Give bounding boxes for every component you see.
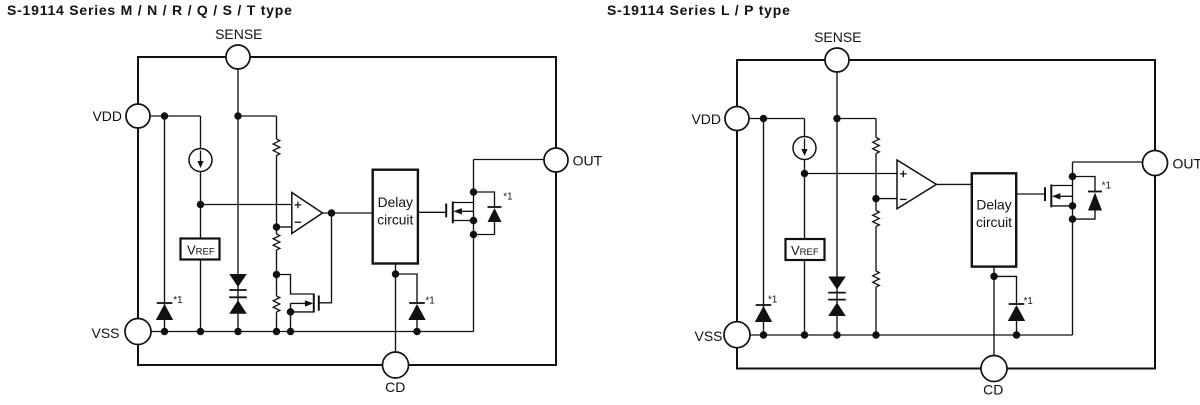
svg-text:OUT: OUT xyxy=(1173,156,1200,172)
junction current source output xyxy=(197,201,205,209)
wire corner down to current source top xyxy=(200,116,202,149)
wire output transistor bulk arrow lead (right) xyxy=(1061,195,1073,197)
wire comparator output down to small transistor gate xyxy=(319,213,332,303)
svg-text:*1: *1 xyxy=(503,192,512,203)
junction Q2 source lead xyxy=(287,308,295,316)
wire comparator plus input line xyxy=(201,204,292,206)
diode D3 (CD clamp) *1 xyxy=(408,303,425,320)
wire divider tap to small transistor drain xyxy=(277,275,314,295)
svg-text:Delay: Delay xyxy=(378,195,413,210)
pin OUT xyxy=(544,148,568,172)
pin VDD xyxy=(126,104,150,128)
wire to OUT pin (right) xyxy=(1073,161,1143,163)
resistor divider R top xyxy=(273,139,280,156)
pin SENSE xyxy=(226,45,250,69)
svg-text:*1: *1 xyxy=(1024,296,1033,307)
junction Q1 source node (right) xyxy=(1069,202,1077,210)
resistor divider R bottom (right) xyxy=(873,271,880,287)
svg-text:*1: *1 xyxy=(425,296,434,307)
wire parallel diode bottom to source node (right) xyxy=(1073,211,1096,220)
wire drain node to parallel diode xyxy=(474,192,495,206)
junction zener on VSS rail (right) xyxy=(833,331,841,339)
zener pair D4 on SENSE line xyxy=(229,274,247,314)
output transistor Q1 xyxy=(446,202,462,224)
wire VDD diode branch (right) xyxy=(763,119,765,336)
pin CD xyxy=(383,352,409,378)
wire output transistor bulk arrow lead xyxy=(462,210,474,212)
resistor divider R middle (right) xyxy=(873,211,880,227)
wire divider chain segments (right) xyxy=(875,119,877,336)
wire comparator plus input line (right) xyxy=(805,173,898,175)
junction delay bottom node (right) xyxy=(990,273,998,281)
reference voltage box VREF (right) xyxy=(786,239,825,260)
junction D3 on VSS rail (right) xyxy=(1013,331,1021,339)
wire output transistor drain lead xyxy=(453,202,474,204)
resistor divider R bottom xyxy=(273,296,280,312)
wire VDD to current-source corner xyxy=(150,115,201,117)
wire parallel diode bottom to source node xyxy=(474,222,495,235)
svg-text:Delay: Delay xyxy=(976,198,1011,213)
left circuit outer frame xyxy=(138,57,556,365)
wire delay bottom to CD pin (right) xyxy=(993,276,995,355)
junction VDD/D1 (right) xyxy=(760,115,768,123)
wire drain node to parallel diode (right) xyxy=(1073,177,1096,191)
svg-text:SENSE: SENSE xyxy=(814,29,861,45)
wire small transistor source to VSS rail xyxy=(290,303,292,331)
comparator U1 xyxy=(292,193,323,234)
current source I1 xyxy=(189,149,212,172)
delay circuit box (right) xyxy=(972,173,1016,266)
junction divider on VSS rail xyxy=(273,328,281,336)
wire comparator minus input line (right) xyxy=(876,198,897,200)
wire delay bottom to CD diode (right) xyxy=(994,276,1017,335)
wire output node vertical (right) xyxy=(1072,162,1074,335)
wire delay circuit to output transistor gate xyxy=(418,211,445,213)
wire SENSE vertical xyxy=(237,69,239,332)
junction diode D2 bottom node (right) xyxy=(1069,215,1077,223)
wire VDD diode branch xyxy=(164,116,166,332)
junction delay bottom node xyxy=(392,270,400,278)
wire output transistor drain lead (right) xyxy=(1051,185,1072,187)
junction current source output (right) xyxy=(801,170,809,178)
junction VREF on VSS rail xyxy=(197,328,205,336)
junction Q1 drain node (right) xyxy=(1069,173,1077,181)
pin OUT (right) xyxy=(1143,151,1168,176)
svg-text:circuit: circuit xyxy=(976,215,1012,230)
wire comparator output xyxy=(323,212,373,214)
junction Q1 drain node xyxy=(470,188,478,196)
pin VSS xyxy=(125,319,151,345)
svg-text:CD: CD xyxy=(385,379,405,395)
wire output transistor source lead (right) xyxy=(1051,205,1072,207)
diode D3 (CD clamp) *1 (right) xyxy=(1008,304,1025,321)
pin VDD (right) xyxy=(725,107,749,131)
wire comparator minus input line xyxy=(277,226,292,228)
junction Q2 source on VSS rail xyxy=(287,328,295,336)
reference voltage box VREF xyxy=(181,239,220,260)
svg-text:*1: *1 xyxy=(768,295,777,306)
wire delay circuit bottom lead xyxy=(395,264,397,275)
wire comparator output (right) xyxy=(936,183,972,185)
wire divider chain segments xyxy=(276,116,278,332)
wire delay bottom to CD diode xyxy=(396,274,418,332)
small transistor Q2 (latch) xyxy=(305,294,319,313)
pin CD (right) xyxy=(981,356,1007,382)
right circuit outer frame xyxy=(737,60,1155,369)
svg-text:*1: *1 xyxy=(173,295,182,306)
junction divider lower tap xyxy=(273,271,281,279)
diode D1 (VDD clamp) *1 (right) xyxy=(755,305,772,322)
pin SENSE (right) xyxy=(825,48,849,72)
diode D2 parallel with Q1 *1 (right) xyxy=(1088,192,1102,211)
svg-text:*1: *1 xyxy=(1102,181,1111,192)
resistor divider R middle xyxy=(273,234,280,250)
svg-text:VSS: VSS xyxy=(694,328,722,344)
wire VREF bottom to VSS rail xyxy=(200,260,202,332)
junction VREF on VSS rail (right) xyxy=(801,331,809,339)
wire small transistor source-bulk lead xyxy=(291,302,307,304)
svg-text:OUT: OUT xyxy=(573,153,603,169)
wire SENSE vertical (right) xyxy=(836,72,838,335)
svg-text:CD: CD xyxy=(983,382,1003,398)
current source I1 (right) xyxy=(793,137,816,160)
diode D2 parallel with Q1 *1 xyxy=(488,207,502,222)
svg-text:SENSE: SENSE xyxy=(215,26,262,42)
junction D1 on VSS rail xyxy=(161,328,169,336)
junction diode D2 bottom node xyxy=(470,231,478,239)
svg-text:S-19114 Series M / N / R / Q /: S-19114 Series M / N / R / Q / S / T typ… xyxy=(7,2,293,18)
junction SENSE node (right) xyxy=(833,115,841,123)
junction divider on VSS rail (right) xyxy=(872,331,880,339)
delay circuit box xyxy=(373,170,418,264)
junction SENSE node xyxy=(234,112,242,120)
junction Q1 source node xyxy=(470,217,478,225)
wire current source bottom to VREF top xyxy=(200,172,202,239)
svg-text:VDD: VDD xyxy=(691,111,721,127)
junction zener on VSS rail xyxy=(234,328,242,336)
wire small transistor source bottom lead xyxy=(291,311,314,313)
wire VSS rail (right) xyxy=(750,334,1073,336)
wire SENSE node to divider top (right) xyxy=(837,118,876,120)
svg-text:circuit: circuit xyxy=(377,212,413,227)
zener pair on SENSE line (right) xyxy=(828,277,846,317)
wire output transistor source lead xyxy=(453,220,474,222)
wire SENSE node to divider top xyxy=(238,115,277,117)
junction divider minus tap xyxy=(273,223,281,231)
wire delay circuit to output transistor gate (right) xyxy=(1016,193,1044,195)
wire VREF bottom to VSS rail (right) xyxy=(804,260,806,335)
svg-text:VSS: VSS xyxy=(91,325,119,341)
wire current source bottom to VREF top (right) xyxy=(804,160,806,240)
output transistor Q1 (right) xyxy=(1045,185,1060,208)
junction VDD/D1 xyxy=(161,112,169,120)
pin VSS (right) xyxy=(724,322,750,348)
junction D3 on VSS rail xyxy=(413,328,421,336)
wire delay circuit bottom lead (right) xyxy=(993,267,995,277)
junction D1 on VSS rail (right) xyxy=(760,331,768,339)
svg-text:S-19114 Series L / P type: S-19114 Series L / P type xyxy=(607,2,791,18)
diode D1 (VDD clamp) *1 xyxy=(156,303,173,320)
wire output node vertical xyxy=(473,160,475,332)
wire delay bottom to CD pin xyxy=(395,274,397,352)
junction comparator output xyxy=(328,209,336,217)
resistor divider R top (right) xyxy=(873,138,880,154)
svg-text:VDD: VDD xyxy=(92,108,122,124)
comparator U1 (right) xyxy=(897,160,936,209)
wire to OUT pin xyxy=(474,159,545,161)
junction divider minus tap (right) xyxy=(872,195,880,203)
wire corner down to current source top (right) xyxy=(804,119,806,137)
wire VSS rail xyxy=(151,331,474,333)
wire VDD to current-source corner (right) xyxy=(749,118,805,120)
